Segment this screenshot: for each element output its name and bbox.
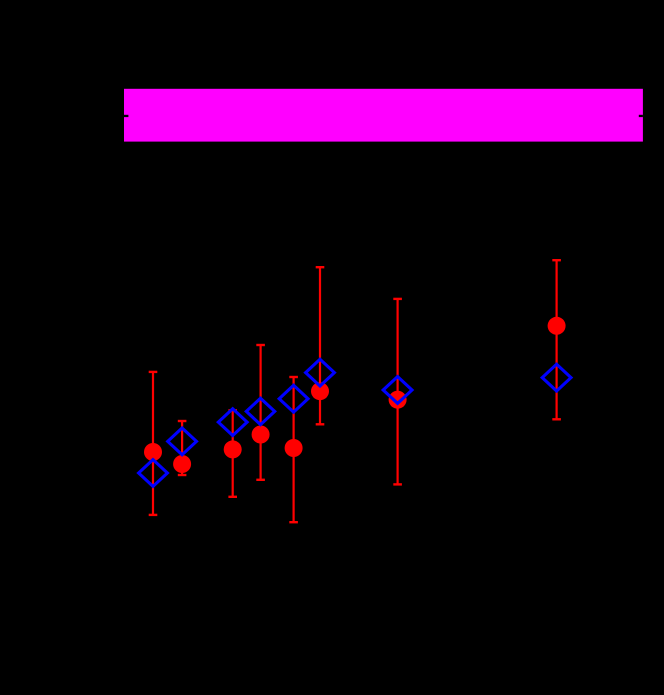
errorbar 8 bbox=[552, 260, 561, 419]
errorbar 1 bbox=[149, 372, 158, 515]
black tick right on band bbox=[639, 115, 643, 117]
errorbar 4 bbox=[256, 345, 265, 480]
errorbar 7 bbox=[393, 299, 402, 485]
errorbar 6 bbox=[316, 267, 325, 424]
errorbar 5 bbox=[289, 377, 298, 522]
red circle markers bbox=[144, 317, 566, 473]
blue diamond markers bbox=[139, 359, 571, 486]
magenta band bbox=[124, 89, 643, 142]
black tick left on band bbox=[124, 115, 128, 117]
errorbar 3 bbox=[228, 410, 237, 497]
errorbar 2 bbox=[178, 421, 187, 475]
